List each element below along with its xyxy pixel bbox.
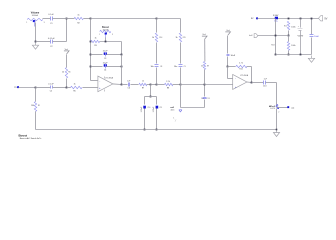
svg-text:10n: 10n <box>150 66 153 68</box>
label C10 value <box>141 106 143 112</box>
svg-text:.: . <box>177 119 178 121</box>
junction Vref/noninv node <box>66 87 68 89</box>
svg-text:8.96V: 8.96V <box>273 15 279 17</box>
wire fb node down to inv <box>228 67 233 79</box>
node battery plus marker <box>275 17 278 20</box>
junction C4 left node <box>90 66 92 68</box>
ground at supply <box>308 56 314 63</box>
svg-text:-: - <box>99 80 100 83</box>
label U2 name <box>240 74 249 77</box>
svg-text:out2: out2 <box>170 106 174 109</box>
junction U2 fb node <box>227 66 229 68</box>
junction branch split <box>150 96 152 98</box>
label R12 value <box>291 27 296 29</box>
svg-text:1M: 1M <box>31 105 34 107</box>
svg-text:1k: 1k <box>77 15 80 17</box>
wire to C10 <box>144 97 146 105</box>
ground at bottom rail <box>273 130 279 137</box>
capacitor C14 <box>310 35 314 37</box>
junction battery top <box>300 18 302 20</box>
svg-text:1: 1 <box>26 22 27 24</box>
label R9 name <box>207 65 209 67</box>
wire 9V rail <box>258 18 319 20</box>
svg-text:+: + <box>99 87 101 90</box>
svg-text:C15: C15 <box>207 98 210 100</box>
net flag Vref (U2) <box>225 32 230 35</box>
svg-text:Bass-in-AC-Twin-b 4u7s: Bass-in-AC-Twin-b 4u7s <box>20 137 42 140</box>
resistor R12 <box>287 21 289 30</box>
label R8 value <box>166 81 170 83</box>
svg-text:LT1490A: LT1490A <box>105 77 114 80</box>
label C11 name <box>159 107 162 109</box>
label R8 name <box>167 88 169 90</box>
wire C4 left <box>91 66 103 68</box>
junction bottom-rail/ground <box>276 129 278 131</box>
svg-text:1u: 1u <box>201 98 203 100</box>
svg-text:1k: 1k <box>201 65 203 67</box>
label R12 name <box>284 26 287 28</box>
label C4 value <box>103 62 109 64</box>
wire branch split right <box>151 96 157 98</box>
label battery node name <box>273 15 279 17</box>
svg-text:441m: 441m <box>171 109 176 111</box>
net port in <box>15 86 19 89</box>
wire bottom rail <box>36 129 277 131</box>
junction wiper/ground node <box>35 41 37 43</box>
wire R12 to half node <box>288 31 290 36</box>
svg-text:R9: R9 <box>207 65 209 67</box>
wire node C upper lead <box>156 19 158 33</box>
wire out2 node to bottom rail <box>276 109 278 130</box>
wire C15 top lead <box>204 85 206 97</box>
label R6 value <box>62 72 64 74</box>
junction node A top rail <box>66 18 68 20</box>
svg-text:half: half <box>249 35 253 37</box>
label R13 value <box>291 45 296 47</box>
label R15 name <box>183 37 186 39</box>
label C3 value <box>103 51 109 53</box>
svg-text:R7: R7 <box>142 88 144 90</box>
capacitor C10 <box>143 106 146 109</box>
label R1 value <box>31 105 34 107</box>
label C9 name <box>184 66 186 68</box>
label R1 name <box>38 105 40 107</box>
capacitor C2 <box>51 40 53 44</box>
wire RV1 to C1 <box>43 18 51 20</box>
svg-text:in: in <box>15 87 18 89</box>
wire inv rail x89.5 down <box>90 19 92 81</box>
wire R3 to wiper node <box>100 41 122 43</box>
label R6 name <box>68 72 70 74</box>
svg-text:9V: 9V <box>251 18 254 20</box>
svg-text:100uF: 100uF <box>141 106 143 112</box>
capacitor C15 <box>203 98 207 99</box>
label R13 name <box>271 44 274 46</box>
wire node C to R8 <box>157 84 165 86</box>
net port half <box>249 34 258 38</box>
wire top rail C to corner <box>157 19 181 33</box>
wire out2 node right <box>277 107 288 109</box>
wire R5 to U1 + <box>83 87 98 89</box>
wire C3 left <box>91 54 103 56</box>
capacitor C8 <box>155 65 159 67</box>
svg-text:Vref: Vref <box>226 29 230 32</box>
junction C14 top <box>311 18 313 20</box>
label R7 value <box>142 81 144 83</box>
potentiometer RV2 (boost) <box>100 30 111 37</box>
wire R15 to C9 <box>180 43 182 64</box>
net flag Vref (U1) <box>64 51 69 54</box>
label R15 value <box>176 37 178 39</box>
capacitor C5 (input) <box>51 86 53 89</box>
label C13 name <box>263 85 266 87</box>
svg-text:-: - <box>239 87 240 89</box>
svg-text:Vref: Vref <box>65 48 69 51</box>
wire R7 to cap branch node <box>147 84 151 86</box>
svg-text:1k: 1k <box>176 37 178 39</box>
svg-text:0.1uF: 0.1uF <box>48 84 54 86</box>
wire to R5 <box>67 87 71 89</box>
capacitor C4 <box>104 64 107 69</box>
junction U2 output node <box>251 82 253 84</box>
net flag out2 node <box>269 104 279 110</box>
svg-text:C10: C10 <box>147 107 150 109</box>
capacitor C1 <box>51 17 53 21</box>
svg-text:out: out <box>291 106 294 109</box>
svg-text:10uF: 10uF <box>314 36 319 38</box>
wire top rail B to C <box>91 18 157 20</box>
wire node D down <box>180 85 182 108</box>
wire C6 to R7 <box>131 84 139 86</box>
resistor R3 <box>91 40 100 42</box>
svg-text:C1: C1 <box>50 23 52 25</box>
wire Vref to R9 <box>204 39 206 61</box>
wire C11 to bottom rail <box>156 109 158 130</box>
svg-text:0.1uF: 0.1uF <box>48 14 54 16</box>
wire C10 to bottom rail <box>144 109 146 130</box>
pin 3 of RV1 <box>44 22 45 24</box>
wire node D to cap corner <box>181 107 205 109</box>
label RV2 name <box>102 26 109 29</box>
svg-text:0.02%: 0.02% <box>270 108 275 110</box>
junction node B <box>90 18 92 20</box>
junction C10 bottom <box>144 129 146 131</box>
resistor R9 <box>203 62 205 70</box>
label RV1 name <box>31 12 40 15</box>
wire corner up to top rail <box>66 19 68 42</box>
junction wiper/R3 node <box>105 41 107 43</box>
wire R6 to noninv node <box>66 79 68 88</box>
label C6 name <box>128 88 130 90</box>
label R3 name <box>94 45 96 47</box>
wire C2 to corner <box>53 41 67 43</box>
resistor R7 <box>139 83 147 85</box>
label C8 name <box>160 66 162 68</box>
svg-text:C2: C2 <box>50 46 52 48</box>
label C10 name <box>147 107 150 109</box>
junction battery bottom <box>300 54 302 56</box>
wire C1 to node A <box>53 18 67 20</box>
wire Vref flag to R6 <box>66 55 68 68</box>
label Vref (R9) <box>202 33 206 36</box>
svg-text:1uF: 1uF <box>127 80 131 82</box>
wire RV2 wiper down <box>105 38 107 42</box>
label Vref (U2) <box>226 29 230 32</box>
label RV2 value <box>102 29 109 31</box>
wire divider top <box>275 19 277 55</box>
wire node A to R2 <box>67 18 75 20</box>
label R3 value <box>94 37 96 39</box>
wire wiper node to C2 <box>36 41 51 43</box>
wire C5 to Vref node <box>53 87 67 89</box>
capacitor C12 <box>227 55 230 56</box>
label R11 name <box>239 69 242 71</box>
svg-text:1k: 1k <box>73 83 75 85</box>
title text <box>19 134 42 140</box>
svg-text:}: } <box>175 120 176 122</box>
svg-text:C3: C3 <box>104 58 106 60</box>
svg-text:LT1490A: LT1490A <box>240 74 249 77</box>
label C5 name <box>50 91 52 93</box>
wire C13 to out corner <box>266 83 277 106</box>
svg-text:2.2k: 2.2k <box>166 81 170 83</box>
label C15 name <box>207 98 210 100</box>
svg-text:R2: R2 <box>77 23 79 25</box>
wire 0V rail <box>276 54 312 56</box>
label C13 value <box>264 79 268 81</box>
svg-text:R6: R6 <box>68 72 70 74</box>
junction R1 top node <box>35 87 37 89</box>
label R7 name <box>142 88 144 90</box>
wire R14 to C8 <box>156 43 158 64</box>
resistor R1 (input bias) <box>34 102 36 112</box>
wire U1 output <box>113 83 122 86</box>
op-amp U2 <box>233 75 247 90</box>
svg-text:+: + <box>298 26 300 28</box>
svg-text:V1 9V: V1 9V <box>297 36 303 38</box>
label R11 value <box>239 62 243 64</box>
potentiometer RV1 (volume) <box>27 18 43 26</box>
svg-text:1k: 1k <box>94 37 96 39</box>
wire R13 to 0V rail <box>288 51 290 55</box>
svg-text:100kB: 100kB <box>102 29 109 31</box>
junction node C rail <box>156 84 158 86</box>
resistor R2 <box>74 17 83 19</box>
svg-text:100k: 100k <box>291 45 296 47</box>
svg-text:C4: C4 <box>104 70 106 72</box>
svg-text:C6: C6 <box>128 88 130 90</box>
wire RV1 wiper down <box>35 23 37 42</box>
wire C14 to 0V rail <box>311 38 313 55</box>
capacitor C11 <box>156 106 159 109</box>
svg-text:100uF: 100uF <box>153 106 155 112</box>
label C6 value <box>127 80 131 82</box>
wire R1 node to C5 <box>36 87 51 89</box>
pin 1 of RV1 <box>26 22 27 24</box>
wire feedback rail down <box>121 55 123 85</box>
wire R2 to node B <box>84 18 91 20</box>
svg-text:R13: R13 <box>271 44 274 46</box>
battery V1 <box>298 19 303 55</box>
svg-text:10uF: 10uF <box>103 51 109 53</box>
svg-text:C11: C11 <box>159 107 162 109</box>
svg-text:C5: C5 <box>50 91 52 93</box>
label R14 name <box>159 37 162 39</box>
junction R12 top <box>288 18 290 20</box>
svg-text:C8: C8 <box>160 66 162 68</box>
wire rail to node C vertical <box>151 84 157 86</box>
label U1 name <box>105 77 114 80</box>
ground at volume pot <box>32 43 38 50</box>
wire wiper node to feedback rail <box>121 42 123 55</box>
capacitor C9 <box>179 65 183 67</box>
svg-text:R8: R8 <box>167 88 169 90</box>
capacitor C13 <box>264 81 266 85</box>
junction R3 left node <box>90 41 92 43</box>
label C1 value <box>48 14 54 16</box>
svg-text:-: - <box>235 77 236 80</box>
wire U2 output <box>247 81 252 84</box>
wire C4 right <box>107 66 122 68</box>
svg-text:2: 2 <box>278 112 279 114</box>
wire R8 to node D <box>173 84 181 86</box>
label C12 value <box>231 55 236 57</box>
resistor R15 <box>179 33 181 42</box>
wire in to R1 node <box>19 87 36 89</box>
label C9 value <box>174 66 177 68</box>
svg-text:C13: C13 <box>263 85 266 87</box>
wire fb node to R11 <box>228 66 236 68</box>
wire R1 top lead <box>35 88 37 102</box>
junction divider-left bottom <box>275 54 277 56</box>
resistor R13 <box>287 42 289 51</box>
svg-text:100k: 100k <box>291 27 296 29</box>
label R5 value <box>73 83 75 85</box>
label V1 plus <box>298 26 300 28</box>
svg-text:0.01uF: 0.01uF <box>48 38 55 40</box>
wire half port to divider <box>258 35 289 37</box>
junction node D <box>180 84 182 86</box>
op-amp U1 <box>98 76 113 92</box>
svg-text:R5: R5 <box>73 91 75 93</box>
junction C3 left node <box>90 54 92 56</box>
resistor R14 <box>155 33 157 42</box>
label R9 value <box>201 65 203 67</box>
svg-text:10uF: 10uF <box>231 55 236 57</box>
junction node E <box>204 84 206 86</box>
label Vref (U1) <box>65 48 69 51</box>
svg-text:R3: R3 <box>94 45 96 47</box>
label R2 value <box>77 15 80 17</box>
svg-text:1k: 1k <box>62 72 64 74</box>
svg-text:Volume: Volume <box>31 12 40 15</box>
svg-text:R11: R11 <box>239 69 242 71</box>
svg-text:100kA: 100kA <box>32 14 39 17</box>
wire mid rail D to E <box>181 84 205 86</box>
svg-text:+: + <box>239 78 240 80</box>
svg-text:1: 1 <box>99 34 100 36</box>
wire output node to C6 <box>122 84 128 86</box>
label C5 value <box>48 84 54 86</box>
resistor R11 <box>236 65 247 67</box>
svg-text:C9: C9 <box>184 66 186 68</box>
net flag mid divider <box>170 106 182 112</box>
wire noninv to U2 <box>205 84 233 86</box>
label V1 name <box>297 36 303 38</box>
junction C4 right node <box>121 66 123 68</box>
resistor R5 <box>71 86 83 88</box>
wire branch split left <box>145 96 151 98</box>
label C4 name <box>104 70 106 72</box>
junction node C <box>156 18 158 20</box>
wire output to C13 <box>252 82 264 84</box>
wire Vref flag to C12 <box>227 36 229 54</box>
label C2 value <box>48 38 55 40</box>
label R14 value <box>152 37 154 39</box>
spice directive <box>173 118 177 123</box>
label battery node value <box>274 20 279 23</box>
wire R1 to bottom rail <box>35 112 37 130</box>
svg-text:R1: R1 <box>38 105 40 107</box>
label C8 value <box>150 66 153 68</box>
label out2 <box>291 106 294 109</box>
junction R13 bottom <box>288 54 290 56</box>
wire branch down <box>150 85 152 97</box>
label RV1 value <box>32 14 39 17</box>
junction half/divider-left <box>275 35 277 37</box>
label C1 name <box>50 23 52 25</box>
label R5 name <box>73 91 75 93</box>
label C11 value <box>153 106 155 112</box>
wire C8 to mid rail <box>156 68 158 85</box>
net flag 9V rail <box>251 17 258 20</box>
resistor R6 <box>65 68 67 79</box>
svg-text:1k: 1k <box>142 81 144 83</box>
wire C12 to fb node <box>227 57 229 67</box>
wire C3 right <box>107 54 122 56</box>
svg-text:Vref: Vref <box>202 33 206 36</box>
wire R13 top <box>288 36 290 42</box>
capacitor C6 <box>129 83 130 87</box>
pin 2 mark <box>278 112 279 114</box>
pin 3 of RV2 <box>112 34 113 36</box>
svg-text:1uF: 1uF <box>264 79 268 81</box>
label C14 value <box>314 36 319 38</box>
svg-text:R15: R15 <box>183 37 186 39</box>
wire C14 top <box>311 19 313 35</box>
svg-text:4.7k: 4.7k <box>239 62 243 64</box>
label C15 value <box>201 98 203 100</box>
net port 9V out <box>319 16 328 21</box>
junction C11 bottom <box>156 129 158 131</box>
net port out2 anchor <box>287 106 289 108</box>
svg-text:3: 3 <box>44 22 45 24</box>
label C2 name <box>50 46 52 48</box>
svg-text:10n: 10n <box>174 66 177 68</box>
junction cap branch node <box>150 84 152 86</box>
wire R11 to fb corner <box>247 67 252 83</box>
svg-text:1k: 1k <box>152 37 154 39</box>
capacitor C3 <box>104 52 107 56</box>
svg-text:3: 3 <box>112 34 113 36</box>
net flag Vref (R9) <box>202 36 207 39</box>
wire C15 bottom lead <box>204 100 206 108</box>
junction U1 output node <box>121 84 123 86</box>
svg-text:R12: R12 <box>284 26 287 28</box>
svg-text:10uF: 10uF <box>103 62 109 64</box>
svg-text:R14: R14 <box>159 37 162 39</box>
junction half node <box>288 35 290 37</box>
